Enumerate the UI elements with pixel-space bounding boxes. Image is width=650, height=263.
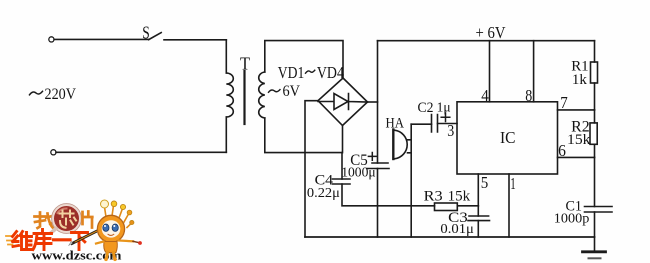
capacitor C1	[585, 207, 613, 213]
wire: C3 top lead	[477, 206, 479, 216]
svg-text:0.01μ: 0.01μ	[440, 222, 474, 237]
svg-text:T: T	[240, 53, 250, 73]
watermark mascot pen	[72, 229, 101, 244]
transformer T core	[243, 71, 245, 124]
watermark mascot eyes	[103, 224, 109, 231]
wire: pin6 node to C1	[594, 157, 596, 206]
watermark char ku	[33, 230, 52, 250]
wire: C2 to IC pin 3	[438, 123, 458, 125]
watermark mascot right arm and stick	[119, 239, 134, 242]
wire: pin 7 to R1/R2 node	[558, 109, 595, 111]
watermark char wei	[13, 232, 33, 250]
wire: switch to transformer corner	[164, 39, 226, 41]
svg-text:1k: 1k	[572, 72, 588, 88]
wire: bottom AC wire	[56, 151, 226, 153]
bridge rectifier VD1~VD4 diamond	[318, 78, 368, 126]
svg-text:5: 5	[481, 173, 489, 192]
wire: secondary bottom to bridge bottom vertex	[265, 118, 342, 153]
svg-text:+ 6V: + 6V	[476, 23, 506, 42]
watermark mascot face	[102, 220, 121, 237]
wire: +6V top rail	[378, 40, 595, 42]
watermark char zhao (find)	[35, 213, 54, 229]
wire: bridge DC- left vertex down to ground rail	[305, 101, 318, 237]
watermark magnifier ring	[53, 205, 80, 232]
wire: down to primary top	[225, 40, 227, 73]
watermark mascot antenna stems	[105, 206, 132, 228]
wire: C4 lead down from junction	[341, 153, 343, 179]
watermark char yi (one)	[54, 238, 71, 241]
wire: R2 to pin6 node	[594, 144, 596, 157]
svg-text:3: 3	[447, 121, 454, 140]
svg-text:1000μ: 1000μ	[341, 166, 376, 181]
wire: HA node to C2	[411, 123, 431, 125]
wire: pin 5 down	[477, 174, 479, 206]
wire: pin7 node to R2	[594, 110, 596, 123]
wire: C4 bottom to R3 node	[342, 184, 435, 206]
watermark char pian (piece)	[83, 212, 93, 228]
svg-text:R3: R3	[424, 189, 443, 205]
svg-text:1: 1	[510, 174, 516, 193]
terminal: top AC input	[49, 37, 54, 42]
watermark mascot legs	[107, 253, 115, 259]
svg-text:1μ: 1μ	[437, 101, 451, 116]
svg-text:HA: HA	[386, 116, 405, 132]
wire: top terminal to switch	[54, 38, 148, 40]
watermark logo dzsc	[6, 200, 142, 263]
watermark mascot mouth	[108, 234, 114, 235]
wire: R3 to C3 node	[457, 205, 478, 207]
ground symbol	[583, 250, 606, 253]
wire: HA node vertical down to ground rail	[410, 124, 412, 237]
wire: rail to R1	[594, 41, 596, 62]
svg-text:15k: 15k	[448, 189, 471, 205]
capacitor C3	[468, 216, 490, 221]
label ~220V	[30, 91, 43, 95]
wire: HA stubs to vertical line	[408, 140, 412, 153]
sounder HA bar	[392, 130, 394, 160]
op IC box	[457, 102, 558, 174]
svg-text:8: 8	[525, 86, 532, 105]
label ~6V	[269, 90, 281, 93]
watermark magnifier handle	[52, 229, 57, 233]
capacitor C2 polarity +	[441, 113, 450, 122]
svg-text:VD4: VD4	[317, 63, 344, 82]
watermark char xia (down)	[72, 233, 88, 250]
svg-text:1000p: 1000p	[554, 211, 590, 226]
capacitor C5 polarity +	[368, 153, 376, 161]
wire: secondary top to bridge top vertex	[265, 41, 343, 78]
sounder HA dome	[395, 130, 408, 159]
watermark mascot body	[104, 242, 118, 253]
svg-text:4: 4	[481, 86, 489, 105]
resistor R3	[435, 203, 458, 211]
wire: pin 8 to +6V rail	[533, 41, 535, 102]
svg-text:220V: 220V	[45, 86, 77, 103]
wire: pin 6 to R2/C1 node	[558, 156, 595, 158]
watermark magnifier lens disc	[54, 206, 80, 232]
wire: C3 bottom to ground rail	[477, 221, 479, 237]
svg-text:6V: 6V	[283, 83, 301, 100]
wire: bridge AC bottom vertex down to junction	[342, 126, 344, 153]
svg-text:VD1: VD1	[278, 63, 305, 82]
switch S	[149, 33, 162, 40]
svg-text:0.22μ: 0.22μ	[307, 186, 340, 201]
wire: primary bottom down	[225, 117, 227, 152]
transformer T primary winding	[226, 73, 233, 117]
watermark mascot head ring	[97, 215, 124, 242]
svg-text:C2: C2	[418, 100, 434, 116]
transformer T secondary winding	[259, 72, 265, 118]
ground rail wire	[305, 236, 595, 238]
watermark magnifier lens highlight	[58, 208, 67, 213]
wire: C5 bottom to ground rail	[377, 169, 379, 238]
watermark mascot left arm	[96, 242, 104, 244]
wire: C1 to ground	[594, 212, 596, 251]
resistor R2	[590, 123, 597, 144]
wire: pin 4 to +6V rail	[489, 41, 491, 102]
wire: pin 1 down to ground rail	[508, 174, 510, 237]
watermark mascot antenna balls	[101, 200, 109, 208]
svg-text:6: 6	[558, 141, 566, 160]
wire: R1 to pin7 node	[594, 83, 596, 110]
svg-text:15k: 15k	[567, 132, 591, 148]
bridge diode symbol	[318, 94, 368, 110]
watermark char xin (chip) on lens	[60, 211, 77, 228]
resistor R1	[591, 62, 598, 83]
watermark speed lines	[6, 236, 13, 245]
svg-text:S: S	[142, 22, 150, 42]
wire: DC+ left line from rail down to C5	[377, 41, 379, 163]
wire: bridge DC+ right vertex to left line	[368, 101, 378, 103]
svg-text:IC: IC	[500, 128, 516, 147]
capacitor C2	[432, 115, 438, 133]
capacitor C4	[333, 179, 351, 184]
terminal: bottom AC input	[51, 150, 56, 155]
svg-text:7: 7	[560, 93, 568, 112]
capacitor C5	[367, 163, 389, 169]
